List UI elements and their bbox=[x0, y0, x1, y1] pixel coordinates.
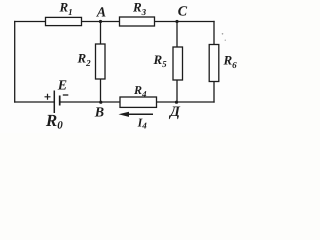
svg-text:E: E bbox=[57, 79, 67, 94]
svg-text:Д: Д bbox=[168, 104, 181, 120]
svg-text:C: C bbox=[178, 4, 188, 19]
svg-text:B: B bbox=[94, 106, 104, 121]
svg-text:A: A bbox=[96, 5, 106, 20]
